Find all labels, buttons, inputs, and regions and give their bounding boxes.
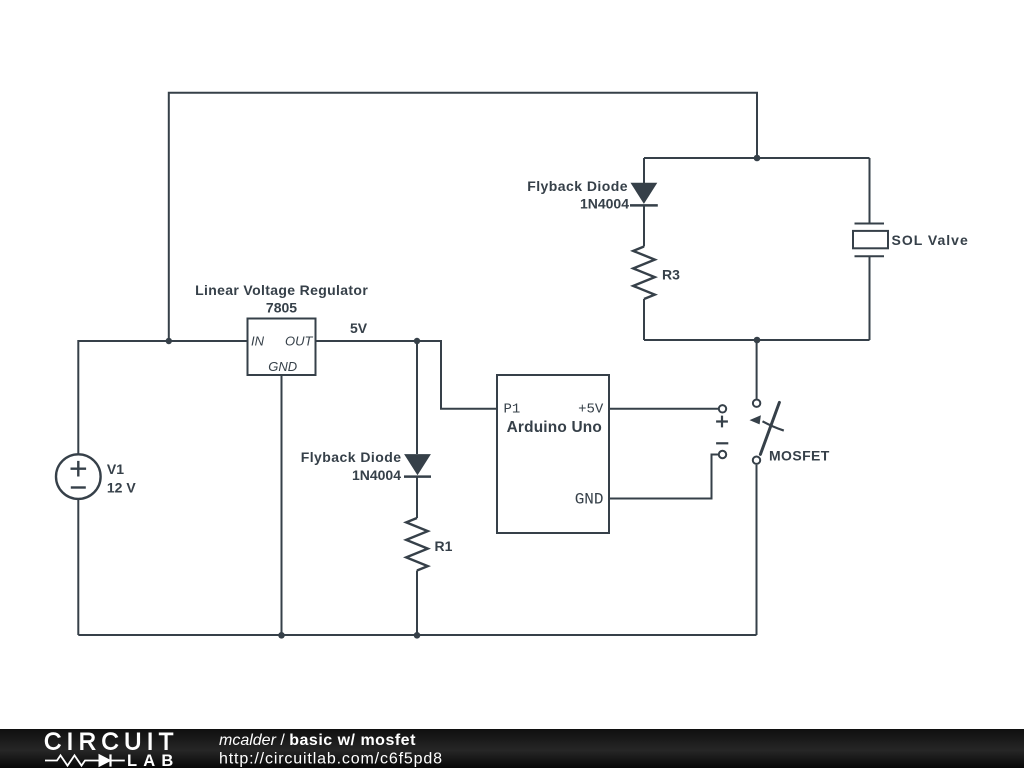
svg-text:V1: V1 — [107, 461, 124, 477]
wire MOSFET source to ground rail — [756, 465, 758, 635]
MOSFET gate arrow arc — [763, 421, 784, 430]
wire regulator GND pin down — [281, 375, 283, 635]
V1 minus sign — [71, 486, 86, 488]
svg-text:1N4004: 1N4004 — [580, 196, 629, 212]
diode D1 flyback 1N4004 — [405, 455, 430, 475]
svg-text:mcalder / basic w/ mosfet: mcalder / basic w/ mosfet — [219, 732, 416, 749]
regulator U1 7805 box — [248, 319, 316, 376]
svg-text:MOSFET: MOSFET — [769, 447, 830, 463]
wire top loop V+ rail — [169, 93, 757, 341]
wire 5V to diode D1 anode — [416, 341, 418, 454]
svg-text:SOL Valve: SOL Valve — [892, 232, 969, 248]
wire V1 plus to regulator IN — [78, 341, 247, 454]
Arduino Uno U2 box — [497, 375, 609, 533]
junction 5V node — [414, 338, 420, 344]
terminal plus sign — [716, 416, 728, 428]
wire R1 to ground rail — [416, 571, 418, 636]
wire R3 to SOL loop bottom — [643, 299, 645, 340]
SOL valve bottom crossbar — [855, 255, 885, 257]
MOSFET switch top open circle — [753, 400, 760, 407]
resistor R3 — [633, 247, 655, 300]
wire D1 cathode to R1 — [416, 477, 418, 518]
wire SOL valve top lead — [869, 158, 871, 223]
wire V1 minus to ground rail — [77, 499, 79, 635]
junction V+ node — [166, 338, 172, 344]
SOL valve top crossbar — [855, 223, 885, 225]
wire Arduino GND pin to minus terminal — [609, 455, 719, 499]
voltage source V1 — [56, 454, 101, 499]
CircuitLab logo resistor-diode symbol — [45, 754, 125, 766]
junction top right node — [754, 155, 761, 162]
wire SOL valve bottom lead — [869, 257, 871, 340]
junction regulator GND at rail — [278, 632, 285, 639]
diode D2 cathode bar — [630, 204, 658, 207]
svg-text:LAB: LAB — [127, 752, 180, 768]
diode D1 cathode bar — [404, 475, 431, 478]
svg-text:http://circuitlab.com/c6f5pd8: http://circuitlab.com/c6f5pd8 — [219, 751, 443, 768]
terminal + open circle — [719, 405, 726, 412]
resistor R1 — [406, 518, 428, 571]
svg-text:Flyback Diode: Flyback Diode — [527, 178, 628, 194]
junction R1 at rail — [414, 632, 421, 639]
wire Arduino +5V pin to terminal — [609, 408, 719, 410]
svg-text:1N4004: 1N4004 — [352, 467, 401, 483]
svg-text:12 V: 12 V — [107, 479, 136, 495]
svg-text:R1: R1 — [435, 538, 453, 554]
MOSFET gate arrow head — [750, 415, 761, 424]
junction drain node — [754, 337, 761, 344]
svg-text:P1: P1 — [504, 401, 521, 417]
svg-text:7805: 7805 — [266, 300, 297, 316]
svg-text:Flyback Diode: Flyback Diode — [301, 449, 402, 465]
svg-text:R3: R3 — [662, 267, 680, 283]
svg-text:Linear Voltage Regulator: Linear Voltage Regulator — [195, 282, 368, 298]
wire D2 cathode to R3 — [643, 205, 645, 246]
wire bottom ground rail — [78, 634, 756, 636]
svg-text:Arduino Uno: Arduino Uno — [507, 419, 602, 436]
terminal minus sign — [716, 442, 728, 444]
wire SOL loop bottom — [644, 339, 870, 341]
svg-text:IN: IN — [251, 334, 265, 349]
SOL valve coil box — [853, 231, 888, 248]
svg-text:GND: GND — [268, 359, 297, 374]
svg-text:GND: GND — [575, 491, 604, 509]
footer bar — [0, 729, 1024, 768]
terminal - open circle — [719, 451, 726, 458]
wire regulator OUT 5V — [316, 341, 498, 409]
wire drain node to MOSFET top — [756, 340, 758, 399]
wire SOL loop top — [644, 157, 870, 159]
svg-text:OUT: OUT — [285, 334, 314, 349]
MOSFET switch arm — [760, 402, 779, 454]
svg-text:+5V: +5V — [578, 401, 604, 417]
diode D2 flyback 1N4004 — [631, 183, 656, 203]
wire to diode D2 anode — [643, 158, 645, 183]
svg-text:5V: 5V — [350, 320, 368, 336]
MOSFET switch bottom open circle — [753, 457, 760, 464]
V1 plus sign — [71, 461, 87, 477]
